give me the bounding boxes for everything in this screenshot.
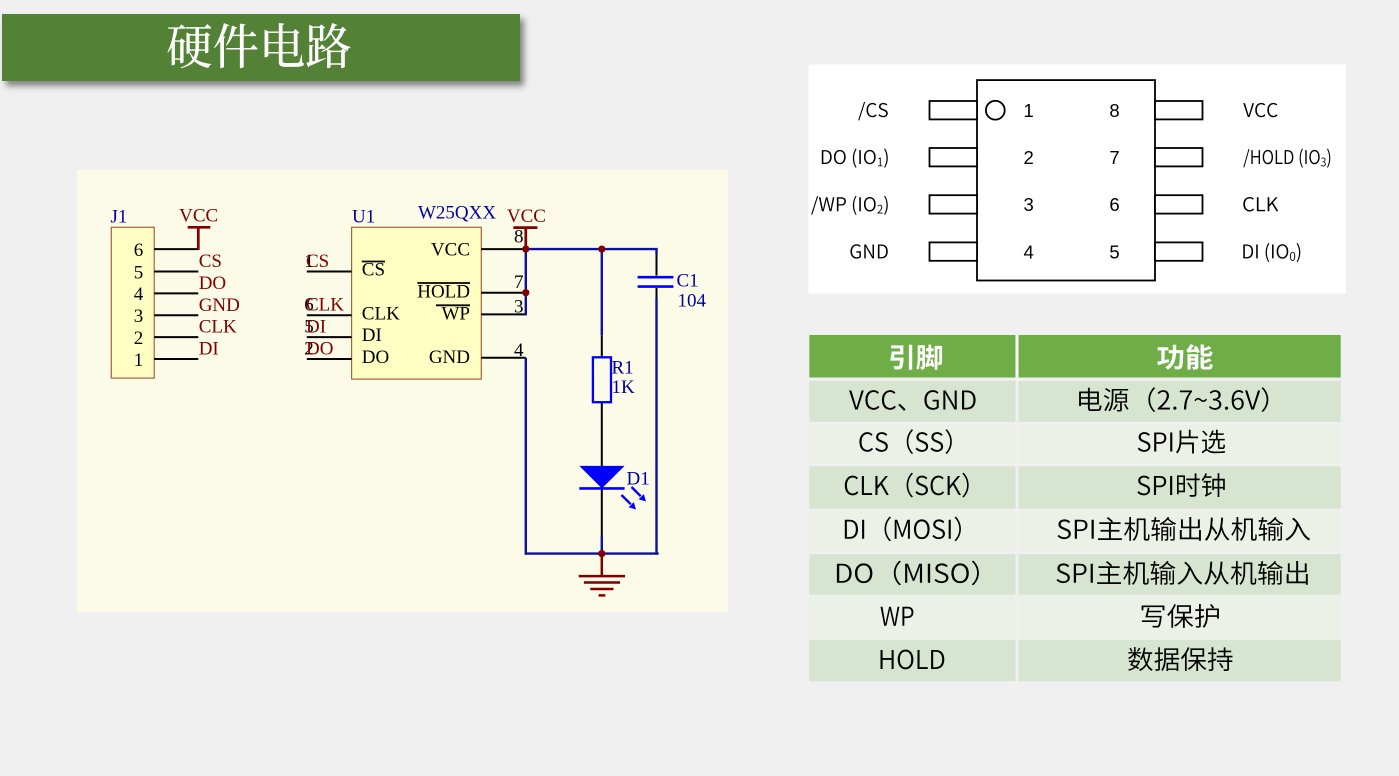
wire J1 pin 1 stub bbox=[154, 358, 198, 360]
svg-text:DI: DI bbox=[306, 317, 326, 338]
R1 bottom lead through LED bbox=[601, 402, 603, 536]
table cell text CLK（SCK） bbox=[845, 473, 969, 498]
svg-text:3: 3 bbox=[514, 296, 524, 317]
pinout right pin box bbox=[1155, 195, 1203, 213]
wire J1 pin 3 stub bbox=[154, 314, 198, 316]
table cell text 数据保持 bbox=[1128, 647, 1232, 671]
svg-text:2: 2 bbox=[1024, 147, 1034, 168]
pinout label CLK bbox=[1243, 197, 1278, 211]
resistor R1 bbox=[593, 357, 611, 402]
svg-text:CLK: CLK bbox=[306, 295, 344, 316]
svg-text:7: 7 bbox=[514, 272, 524, 293]
svg-text:5: 5 bbox=[1109, 241, 1119, 262]
pinout right pin box bbox=[1155, 242, 1203, 260]
wire pin8 down to pin7/pin3 bbox=[525, 249, 527, 315]
junction dot pin7 bbox=[522, 289, 529, 296]
table header divider bbox=[1016, 335, 1019, 378]
svg-text:U1: U1 bbox=[352, 207, 375, 228]
svg-text:5: 5 bbox=[134, 262, 144, 283]
table header 功能 bbox=[1157, 344, 1213, 369]
wire U1 pin 7 stub bbox=[481, 292, 526, 294]
table cell text CS（SS） bbox=[859, 429, 951, 454]
pinout label DO (IO1) bbox=[822, 148, 888, 167]
svg-text:VCC: VCC bbox=[507, 206, 546, 227]
table cell text WP bbox=[881, 607, 914, 626]
pinout left pin box bbox=[930, 242, 978, 260]
svg-text:6: 6 bbox=[134, 240, 144, 261]
svg-text:3: 3 bbox=[1024, 194, 1034, 215]
pinout left pin box bbox=[930, 101, 978, 119]
pinout IC body bbox=[977, 80, 1155, 280]
pinout pin-1 indicator circle bbox=[986, 101, 1005, 120]
svg-text:CLK: CLK bbox=[199, 317, 237, 338]
svg-text:DI: DI bbox=[199, 338, 219, 359]
wire U1 pin 8 stub bbox=[481, 248, 526, 250]
title text 硬件电路 bbox=[167, 23, 350, 68]
svg-text:WP: WP bbox=[442, 303, 471, 324]
ground symbol bbox=[579, 554, 625, 596]
svg-text:6: 6 bbox=[1109, 194, 1119, 215]
svg-text:W25QXX: W25QXX bbox=[418, 203, 496, 224]
power symbol VCC at U1 pin 8 bbox=[524, 228, 527, 250]
wire U1 CS stub bbox=[307, 271, 352, 273]
wire C1 down to ground rail bbox=[655, 298, 657, 555]
wire J1 pin 6 stub bbox=[154, 248, 198, 250]
schematic panel background bbox=[77, 170, 728, 612]
svg-text:VCC: VCC bbox=[431, 240, 470, 261]
table cell text SPI时钟 bbox=[1137, 473, 1225, 497]
pinout left pin box bbox=[930, 195, 978, 213]
wire J1 pin 5 stub bbox=[154, 271, 198, 273]
svg-text:8: 8 bbox=[514, 227, 524, 248]
svg-text:GND: GND bbox=[429, 347, 470, 368]
svg-text:D1: D1 bbox=[627, 468, 650, 489]
wire ground rail horizontal bbox=[525, 552, 659, 554]
svg-text:J1: J1 bbox=[111, 207, 128, 228]
D1 light emission arrows bbox=[622, 487, 647, 510]
wire J1 pin 4 stub bbox=[154, 292, 198, 294]
table cell text DI（MOSI） bbox=[845, 517, 961, 542]
pinout right pin box bbox=[1155, 148, 1203, 166]
capacitor C1 bbox=[638, 276, 674, 279]
table cell text SPI主机输入从机输出 bbox=[1056, 561, 1307, 585]
svg-text:104: 104 bbox=[678, 291, 707, 312]
table row 1 background bbox=[809, 381, 1015, 422]
junction dot R1 branch bbox=[598, 246, 605, 253]
table cell text VCC、GND bbox=[849, 390, 976, 411]
svg-text:CS: CS bbox=[199, 251, 222, 272]
junction dot pin8 bbox=[522, 246, 529, 253]
table cell text SPI片选 bbox=[1138, 430, 1225, 454]
svg-text:CS: CS bbox=[306, 251, 329, 272]
wire VCC horizontal rail bbox=[525, 248, 658, 250]
wire U1 CLK stub bbox=[307, 314, 352, 316]
table cell text 电源（2.7~3.6V） bbox=[1079, 387, 1268, 412]
wire VCC rail corner down to C1 bbox=[655, 248, 657, 255]
C1 top pin lead bbox=[656, 255, 658, 276]
svg-text:C1: C1 bbox=[677, 270, 699, 291]
wire J1 pin 2 stub bbox=[154, 336, 198, 338]
svg-text:GND: GND bbox=[199, 295, 240, 316]
title bar 硬件电路 bbox=[2, 14, 520, 81]
svg-text:3: 3 bbox=[134, 306, 144, 327]
pin function table bbox=[809, 335, 1340, 378]
table cell text SPI主机输出从机输入 bbox=[1058, 517, 1310, 541]
table row 5 background bbox=[809, 554, 1015, 595]
wire U1 pin 3 stub bbox=[481, 313, 526, 315]
svg-text:1: 1 bbox=[134, 350, 144, 371]
junction dot ground rail bbox=[598, 550, 605, 557]
pinout label /HOLD (IO3) bbox=[1243, 148, 1330, 167]
svg-text:HOLD: HOLD bbox=[417, 281, 470, 302]
svg-text:DI: DI bbox=[362, 325, 382, 346]
R1 top pin lead bbox=[601, 335, 603, 357]
wire U1 DI stub bbox=[307, 336, 352, 338]
svg-text:1K: 1K bbox=[612, 377, 636, 398]
wire U1 pin 4 stub bbox=[481, 357, 526, 359]
svg-text:DO: DO bbox=[199, 273, 226, 294]
svg-text:1: 1 bbox=[1024, 100, 1034, 121]
svg-text:CLK: CLK bbox=[362, 303, 400, 324]
table row 4 background bbox=[809, 511, 1015, 551]
table row 7 background bbox=[809, 640, 1015, 682]
wire LED to ground rail bbox=[601, 536, 603, 554]
power symbol VCC at J1 pin 6 bbox=[197, 227, 200, 250]
pinout left pin box bbox=[930, 148, 978, 166]
table row 2 background bbox=[809, 425, 1015, 464]
svg-text:R1: R1 bbox=[612, 357, 634, 378]
wire VCC rail down to R1 bbox=[601, 249, 603, 335]
connector J1 body bbox=[111, 227, 154, 378]
svg-text:VCC: VCC bbox=[179, 206, 218, 227]
LED D1 bbox=[579, 466, 624, 489]
table cell text 写保护 bbox=[1142, 604, 1219, 628]
svg-text:DO: DO bbox=[362, 347, 389, 368]
table row 6 background bbox=[809, 596, 1015, 639]
pinout label /CS bbox=[858, 102, 888, 120]
pinout right pin box bbox=[1155, 101, 1203, 119]
pinout label GND bbox=[850, 244, 887, 258]
table row 3 background bbox=[809, 466, 1015, 508]
wire U1 pin4 GND down bbox=[525, 358, 527, 555]
IC U1 body bbox=[352, 227, 482, 379]
pinout label VCC bbox=[1243, 103, 1277, 117]
table cell text HOLD bbox=[881, 650, 945, 670]
svg-text:2: 2 bbox=[134, 328, 144, 349]
svg-text:CS: CS bbox=[362, 260, 385, 281]
wire U1 DO stub bbox=[307, 358, 352, 360]
svg-text:4: 4 bbox=[514, 340, 524, 361]
svg-text:4: 4 bbox=[134, 284, 144, 305]
table cell text DO（MISO） bbox=[837, 561, 979, 586]
C1 bottom pin lead bbox=[656, 288, 658, 298]
table header 引脚 bbox=[890, 345, 942, 370]
svg-text:7: 7 bbox=[1109, 147, 1119, 168]
pinout label DI (IO0) bbox=[1243, 243, 1300, 262]
svg-text:DO: DO bbox=[306, 338, 333, 359]
svg-text:4: 4 bbox=[1024, 241, 1034, 262]
svg-text:8: 8 bbox=[1109, 100, 1119, 121]
pinout label /WP (IO2) bbox=[811, 196, 888, 215]
pinout panel background bbox=[809, 65, 1347, 294]
